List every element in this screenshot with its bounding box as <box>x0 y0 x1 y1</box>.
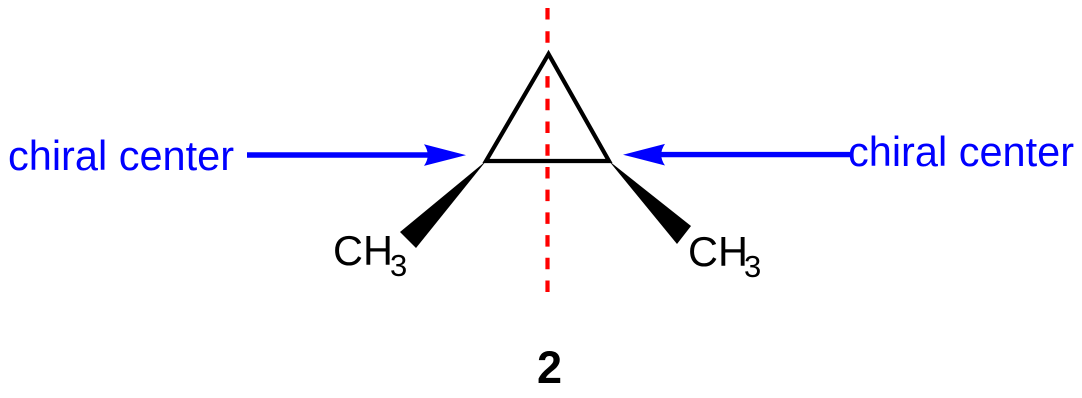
svg-text:3: 3 <box>390 248 407 283</box>
svg-text:CH: CH <box>333 227 393 274</box>
mirror plane (red dashed line, lower segment) <box>545 76 549 292</box>
svg-text:chiral center: chiral center <box>848 128 1074 175</box>
svg-text:2: 2 <box>537 342 562 393</box>
arrow left (to C1) <box>247 152 432 157</box>
svg-text:3: 3 <box>744 249 761 284</box>
svg-text:chiral center: chiral center <box>8 132 234 179</box>
svg-text:CH: CH <box>688 228 748 275</box>
cyclopropane ring <box>486 54 609 161</box>
wedge bond left (C1-CH3) <box>400 161 486 248</box>
mirror plane (red dashed line, upper segment) <box>545 8 549 43</box>
wedge bond right (C2-CH3) <box>609 161 691 244</box>
arrow right (to C2) <box>657 152 850 157</box>
